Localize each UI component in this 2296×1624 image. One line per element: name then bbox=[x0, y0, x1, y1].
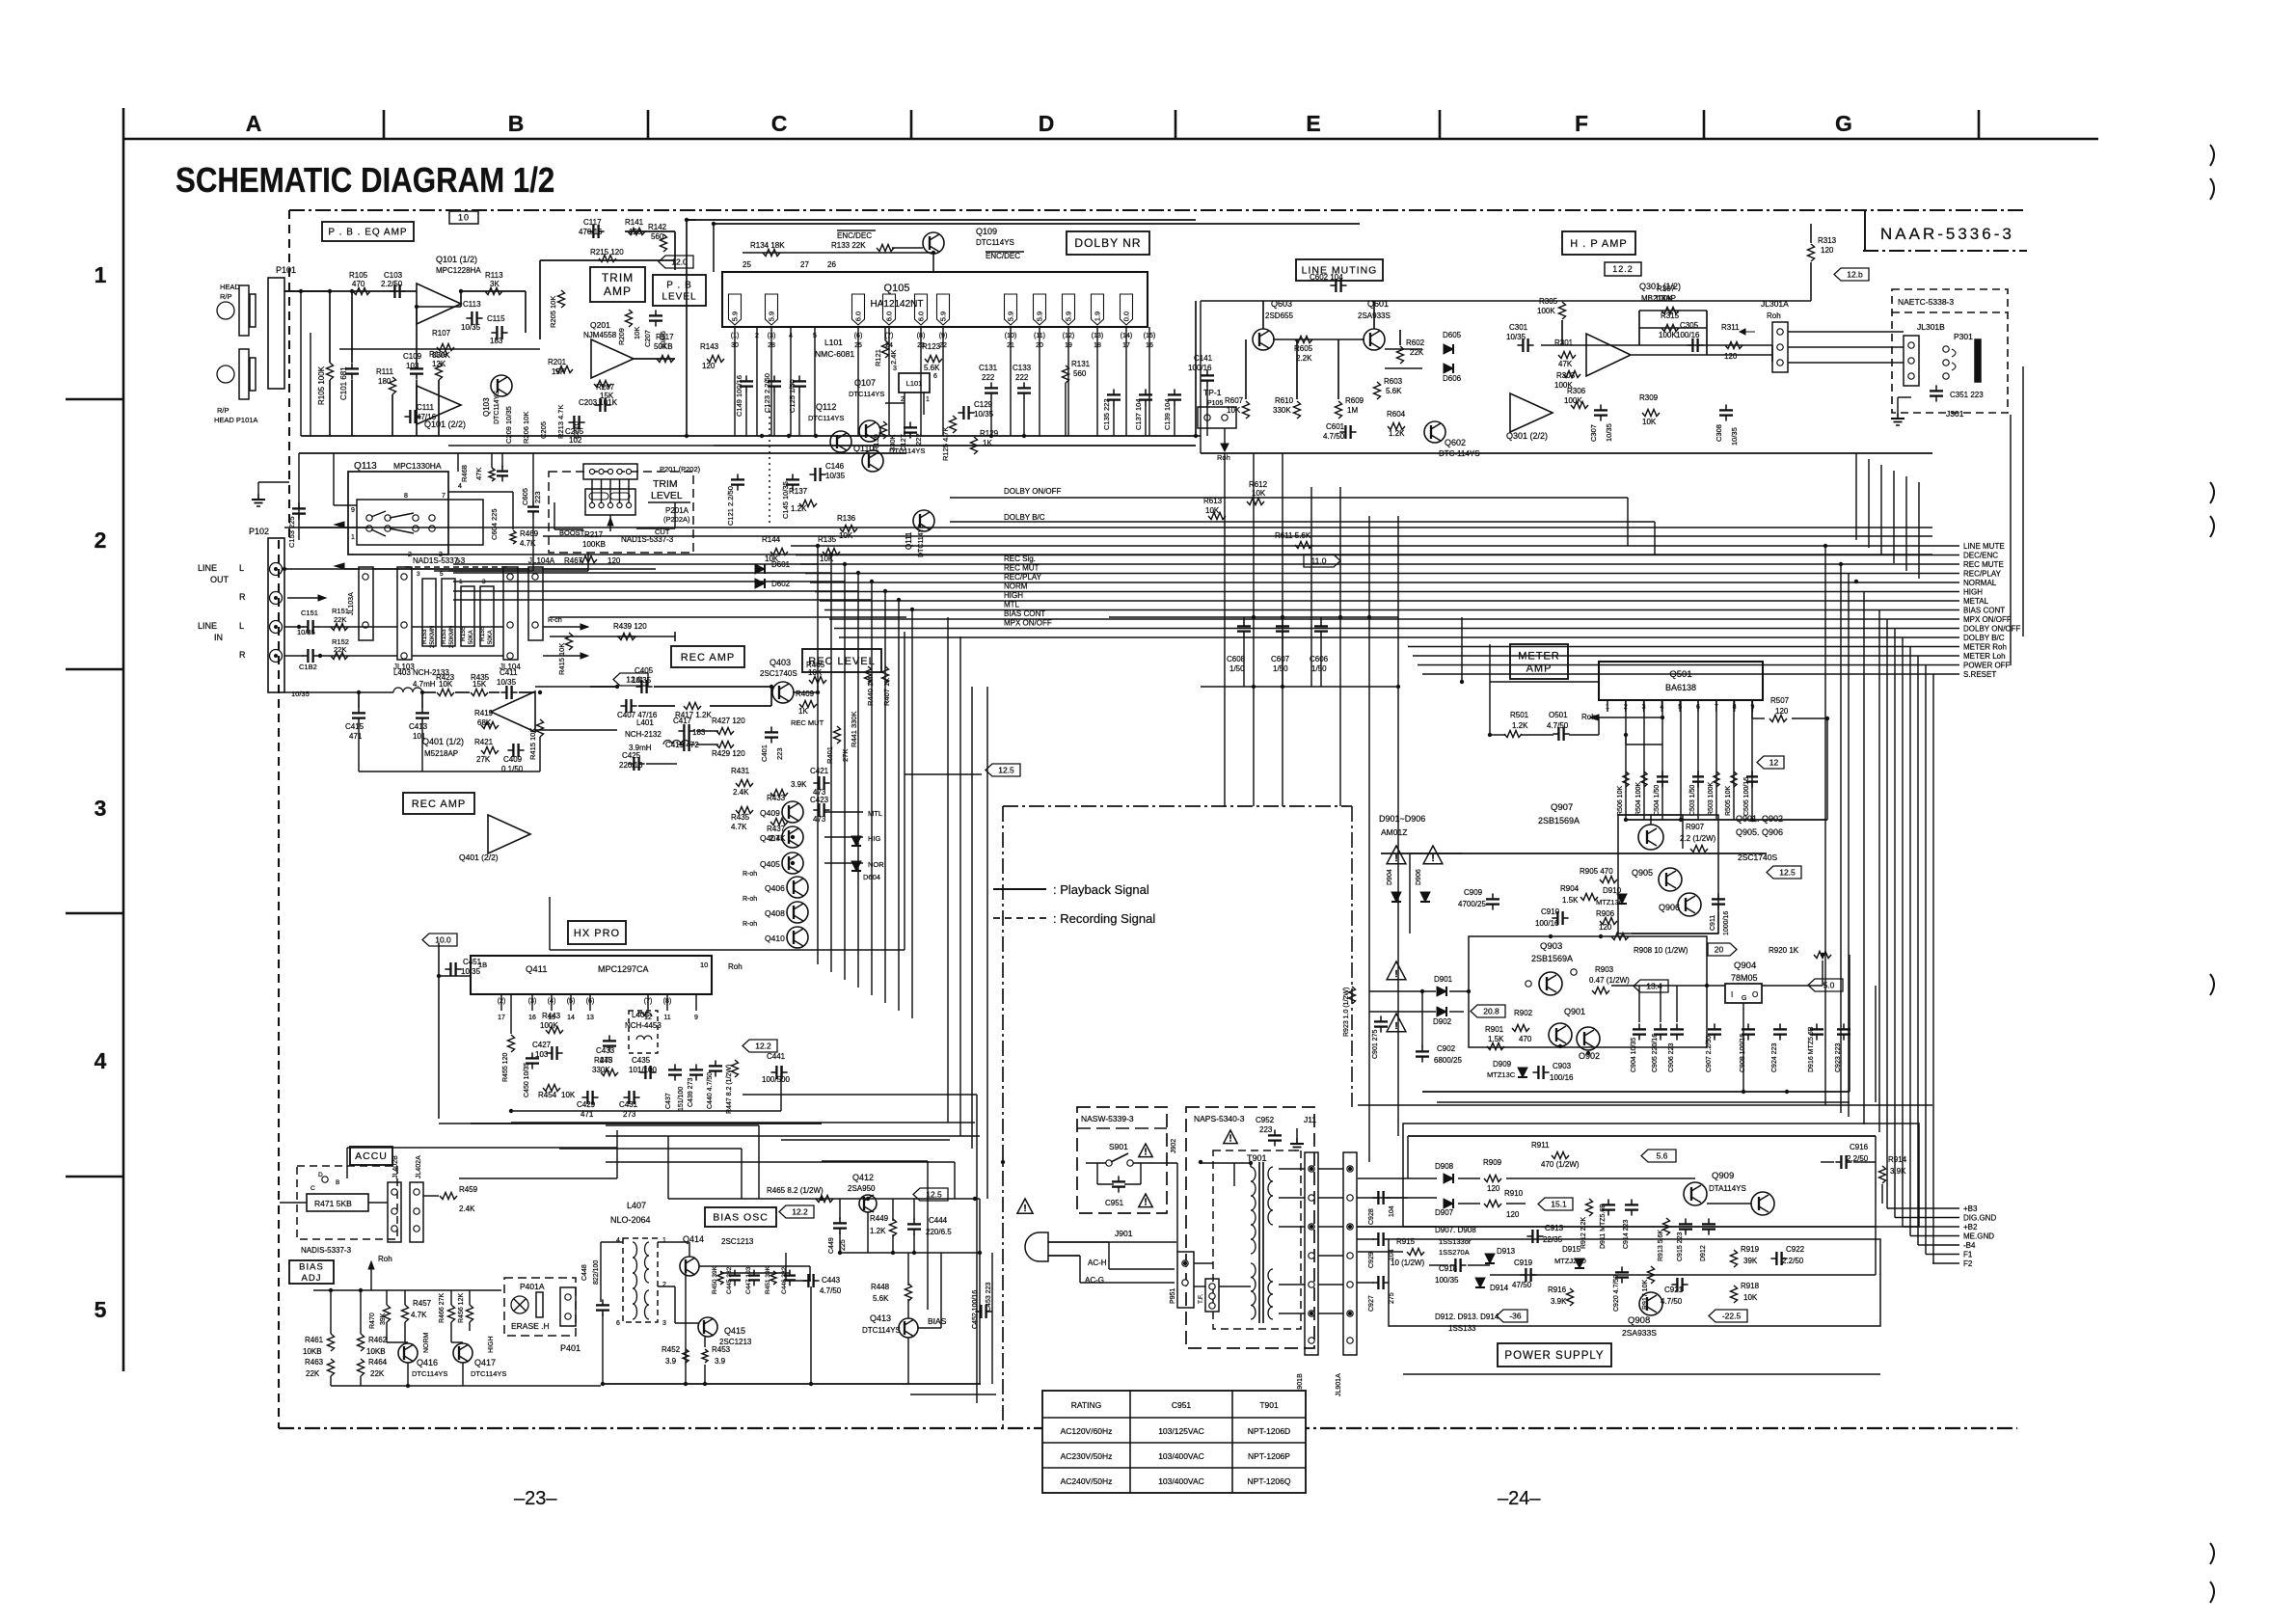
svg-text:C910: C910 bbox=[1541, 907, 1560, 916]
svg-text:5.9: 5.9 bbox=[768, 311, 776, 321]
svg-text:10K: 10K bbox=[1743, 1293, 1758, 1302]
svg-text:Q413: Q413 bbox=[870, 1313, 891, 1323]
resistor R449 bbox=[890, 1219, 897, 1236]
svg-text:4.7K: 4.7K bbox=[731, 823, 747, 831]
svg-text:20.8: 20.8 bbox=[1483, 1007, 1499, 1016]
svg-text:R612: R612 bbox=[1249, 480, 1268, 489]
resistor R909 bbox=[1484, 1176, 1501, 1182]
svg-text:C504 1/50: C504 1/50 bbox=[1654, 785, 1661, 816]
ic Q411 MPC1297CA bbox=[471, 956, 712, 994]
svg-text:1.9: 1.9 bbox=[1094, 311, 1102, 321]
resistor R151 bbox=[331, 624, 348, 631]
svg-text:39K: 39K bbox=[1743, 1257, 1758, 1265]
svg-text:D906: D906 bbox=[1416, 869, 1422, 885]
svg-text:R901: R901 bbox=[1485, 1025, 1504, 1034]
svg-text:C421: C421 bbox=[810, 767, 829, 775]
capacitor C308 vertical bbox=[1719, 409, 1733, 411]
svg-text:2SA933S: 2SA933S bbox=[1622, 1328, 1657, 1338]
svg-text:NCH-2132: NCH-2132 bbox=[625, 730, 662, 739]
svg-text:2.4K: 2.4K bbox=[459, 1204, 475, 1213]
wires line muting bbox=[1201, 300, 1504, 302]
svg-text:R131: R131 bbox=[1071, 360, 1091, 368]
svg-text:R435: R435 bbox=[731, 813, 750, 822]
svg-text:330K: 330K bbox=[592, 1066, 610, 1074]
capacitor C409 bbox=[512, 744, 514, 757]
capacitor C405 bbox=[640, 680, 642, 693]
svg-text:LEVEL: LEVEL bbox=[662, 292, 696, 303]
svg-text:R459: R459 bbox=[459, 1185, 478, 1194]
svg-text:R913 5.6K: R913 5.6K bbox=[1658, 1230, 1664, 1261]
wires jack bbox=[1788, 331, 1904, 333]
resistor R610 bbox=[1294, 401, 1301, 419]
svg-text:HIG: HIG bbox=[868, 834, 881, 843]
wire extra hp-bus verticals bbox=[1855, 453, 1857, 540]
svg-text:R311: R311 bbox=[1721, 323, 1740, 332]
resistor R311 bbox=[1725, 342, 1742, 349]
transistor Q901 bbox=[1549, 1023, 1572, 1046]
svg-text:4: 4 bbox=[458, 483, 462, 490]
svg-text:12.2: 12.2 bbox=[1612, 264, 1634, 274]
svg-text:1/50: 1/50 bbox=[1311, 664, 1327, 673]
svg-text:R452: R452 bbox=[662, 1345, 681, 1354]
svg-text:R213 4.7K: R213 4.7K bbox=[556, 405, 565, 439]
svg-text:R905 470: R905 470 bbox=[1580, 867, 1613, 876]
svg-text:D605: D605 bbox=[1443, 331, 1462, 339]
vertical ps mid parts2 bbox=[1663, 1218, 1670, 1235]
resistor R113 bbox=[485, 288, 502, 295]
pin stubs Q105 bbox=[734, 327, 736, 436]
svg-text:R910: R910 bbox=[1504, 1189, 1524, 1198]
wire ps rect low bbox=[1389, 1239, 1880, 1326]
op-amp Q201 bbox=[591, 339, 634, 378]
svg-text:REC AMP: REC AMP bbox=[681, 652, 736, 663]
svg-text:!: ! bbox=[1023, 1204, 1026, 1214]
resistor R452 bbox=[683, 1349, 689, 1363]
block label METER AMP bbox=[1510, 644, 1568, 679]
svg-text:DOLBY B/C: DOLBY B/C bbox=[1963, 634, 2005, 642]
svg-text:R427 120: R427 120 bbox=[712, 717, 745, 725]
svg-text:D: D bbox=[1039, 111, 1055, 136]
resistor R435a bbox=[471, 690, 488, 696]
svg-text:L405: L405 bbox=[632, 1011, 649, 1019]
svg-text:A: A bbox=[246, 111, 262, 136]
svg-text:C427: C427 bbox=[532, 1041, 552, 1049]
svg-text:3.9: 3.9 bbox=[665, 1357, 677, 1366]
svg-text:275: 275 bbox=[1389, 1292, 1395, 1304]
wires q113 bbox=[299, 452, 906, 454]
svg-text:1: 1 bbox=[95, 262, 107, 287]
svg-text:2SA950: 2SA950 bbox=[848, 1184, 876, 1193]
block label TRIM AMP bbox=[590, 267, 645, 302]
capacitor C146 bbox=[814, 468, 816, 481]
resistor R462 bbox=[358, 1334, 365, 1351]
svg-text:SCHEMATIC DIAGRAM 1/2: SCHEMATIC DIAGRAM 1/2 bbox=[176, 161, 554, 201]
resistor R907 bbox=[1690, 846, 1708, 853]
svg-text:DOLBY ON/OFF: DOLBY ON/OFF bbox=[1963, 625, 2021, 634]
svg-text:C129: C129 bbox=[974, 400, 993, 409]
svg-text:10KB: 10KB bbox=[303, 1347, 322, 1356]
svg-text:Q602: Q602 bbox=[1445, 438, 1466, 447]
svg-text:R506 10K: R506 10K bbox=[1617, 786, 1624, 816]
svg-text:3.9K: 3.9K bbox=[1890, 1167, 1906, 1176]
svg-text:C903: C903 bbox=[1553, 1062, 1572, 1070]
svg-text:POWER SUPPLY: POWER SUPPLY bbox=[1504, 1350, 1604, 1362]
svg-text:JL301A: JL301A bbox=[1761, 299, 1789, 309]
svg-text:1B: 1B bbox=[478, 961, 487, 969]
svg-text:180: 180 bbox=[378, 377, 392, 386]
ic Q105 HA12142NT bbox=[722, 272, 1148, 327]
svg-text:R215 120: R215 120 bbox=[590, 248, 624, 257]
svg-text:100/16: 100/16 bbox=[1550, 1073, 1574, 1082]
resistor R612 bbox=[1247, 499, 1264, 505]
svg-text:C445 332: C445 332 bbox=[726, 1266, 733, 1294]
capacitor C113 bbox=[471, 311, 473, 325]
svg-text:R443: R443 bbox=[542, 1012, 561, 1020]
capacitor C433 bbox=[603, 1040, 616, 1042]
svg-text:C133: C133 bbox=[1013, 364, 1032, 372]
resistor R313 bbox=[1808, 244, 1815, 261]
svg-text:Q301 (2/2): Q301 (2/2) bbox=[1506, 431, 1548, 441]
connector JL402A bbox=[410, 1182, 423, 1242]
svg-text:C111: C111 bbox=[417, 403, 434, 412]
resistor R468 vertical bbox=[489, 468, 495, 481]
pot block JL104 bbox=[503, 567, 518, 660]
svg-text:103: 103 bbox=[406, 362, 419, 370]
svg-text:R466 27K: R466 27K bbox=[439, 1293, 446, 1323]
rating table bbox=[1042, 1391, 1306, 1493]
resistor R466 vertical bbox=[448, 1305, 455, 1322]
wire hx to bias long bbox=[439, 1123, 822, 1124]
svg-text:10/35: 10/35 bbox=[291, 690, 310, 698]
transistor Q417 bbox=[453, 1343, 473, 1363]
capacitor C920 vertical bbox=[1615, 1271, 1629, 1273]
transformer T901 primary coil bbox=[1251, 1167, 1256, 1181]
resistor R419 bbox=[481, 722, 499, 729]
resistor R607 bbox=[1243, 401, 1250, 419]
svg-text:MPX ON/OFF: MPX ON/OFF bbox=[1963, 615, 2012, 624]
resistor R454 bbox=[543, 1085, 560, 1092]
svg-text:R-oh: R-oh bbox=[743, 896, 757, 903]
svg-text:S901: S901 bbox=[1109, 1142, 1128, 1151]
svg-text:C919: C919 bbox=[1514, 1259, 1533, 1267]
svg-text:10: 10 bbox=[458, 213, 470, 223]
svg-text:L101: L101 bbox=[824, 338, 843, 347]
transistor Q908 bbox=[1639, 1292, 1662, 1315]
svg-text:101/100: 101/100 bbox=[629, 1066, 657, 1074]
svg-text:222: 222 bbox=[1015, 373, 1029, 382]
svg-text:JL901A: JL901A bbox=[1336, 1373, 1342, 1396]
svg-text:REC/PLAY: REC/PLAY bbox=[1004, 573, 1042, 582]
svg-text:C203 101K: C203 101K bbox=[579, 398, 618, 407]
svg-text:C113: C113 bbox=[463, 300, 481, 309]
svg-text:NMC-6081: NMC-6081 bbox=[815, 349, 854, 359]
resistor R309 bbox=[1642, 410, 1660, 417]
svg-text:C146: C146 bbox=[825, 462, 845, 471]
resistor R470 vertical bbox=[384, 1305, 391, 1322]
svg-text:R-oh: R-oh bbox=[743, 871, 757, 878]
capacitor C443 bbox=[807, 1274, 809, 1287]
svg-text:R504 100K: R504 100K bbox=[1635, 782, 1642, 816]
svg-text:R465 8.2 (1/2W): R465 8.2 (1/2W) bbox=[767, 1186, 824, 1195]
capacitor C916 bbox=[1840, 1155, 1842, 1169]
svg-text:4.7/50: 4.7/50 bbox=[1661, 1297, 1683, 1306]
binder marks bbox=[2210, 145, 2214, 166]
svg-text:DTC114YS: DTC114YS bbox=[889, 447, 925, 455]
svg-text:AC-H: AC-H bbox=[1088, 1259, 1107, 1267]
svg-text:9: 9 bbox=[694, 1015, 698, 1021]
resistor R134 bbox=[763, 250, 780, 257]
diode D603 bbox=[851, 836, 861, 846]
flag -22.5 bbox=[1709, 1310, 1747, 1322]
svg-text:R920 1K: R920 1K bbox=[1769, 946, 1799, 955]
flag 10.0 bbox=[422, 934, 457, 946]
capacitor C151 bbox=[307, 620, 309, 634]
svg-text:Q906: Q906 bbox=[1659, 903, 1680, 912]
svg-text:C419 472: C419 472 bbox=[665, 741, 699, 749]
svg-text:R505 10K: R505 10K bbox=[1725, 786, 1732, 816]
svg-text:Q109: Q109 bbox=[976, 227, 997, 236]
svg-text:27K: 27K bbox=[841, 749, 850, 762]
svg-text:5.6: 5.6 bbox=[1657, 1151, 1668, 1161]
svg-text:R209: R209 bbox=[617, 328, 626, 345]
diode D914 bbox=[1475, 1278, 1485, 1287]
transistor Q103 bbox=[491, 375, 512, 396]
svg-text:2.4K: 2.4K bbox=[770, 834, 786, 843]
svg-text:C429: C429 bbox=[577, 1100, 596, 1109]
svg-text:R111: R111 bbox=[376, 367, 393, 376]
svg-text:10K: 10K bbox=[561, 1091, 576, 1099]
svg-text:R303: R303 bbox=[1556, 371, 1576, 380]
svg-text:P . B: P . B bbox=[666, 281, 692, 291]
svg-text:R153: R153 bbox=[421, 629, 428, 644]
svg-text:R450 39K: R450 39K bbox=[712, 1265, 718, 1294]
svg-text:ERASE .H: ERASE .H bbox=[511, 1321, 550, 1331]
flag 12.5 recamp bbox=[986, 764, 1020, 776]
svg-text:10/35: 10/35 bbox=[1605, 423, 1613, 442]
op-amp Q301 1/2 bbox=[1586, 334, 1631, 376]
svg-text:AC240V/50Hz: AC240V/50Hz bbox=[1061, 1476, 1113, 1486]
block label REC AMP lower bbox=[403, 793, 474, 814]
capacitor C902 bbox=[1416, 1050, 1429, 1052]
svg-text:5: 5 bbox=[440, 571, 444, 578]
svg-text:3K: 3K bbox=[490, 280, 500, 288]
svg-text:3: 3 bbox=[893, 365, 897, 372]
svg-text:R456 12K: R456 12K bbox=[458, 1293, 465, 1323]
svg-text:R137: R137 bbox=[789, 487, 808, 496]
svg-text:C901 275: C901 275 bbox=[1372, 1030, 1379, 1059]
svg-text:P401A: P401A bbox=[520, 1282, 545, 1291]
wires q412 cluster bbox=[668, 1198, 980, 1200]
transistor Q906 bbox=[1678, 893, 1701, 916]
svg-text:Q401 (2/2): Q401 (2/2) bbox=[459, 853, 499, 862]
resistor R501 bbox=[1504, 731, 1522, 738]
svg-text:G: G bbox=[1835, 111, 1852, 136]
svg-text:2.2 (1/2W): 2.2 (1/2W) bbox=[1680, 834, 1716, 843]
capacitor C918 bbox=[1454, 1259, 1456, 1272]
svg-text:C602 104: C602 104 bbox=[1310, 273, 1343, 282]
capacitor C145 vertical bbox=[786, 478, 799, 480]
block label REC LEVEL bbox=[802, 649, 881, 672]
transistor Q601 bbox=[1364, 329, 1385, 350]
svg-text:MPC1297CA: MPC1297CA bbox=[598, 964, 649, 974]
block label BIAS OSC bbox=[705, 1207, 776, 1227]
svg-text:AM01Z: AM01Z bbox=[1381, 827, 1407, 837]
capacitor C901 vertical bbox=[1374, 1020, 1388, 1022]
border frame bbox=[122, 108, 125, 1371]
svg-text:R445: R445 bbox=[594, 1056, 613, 1065]
svg-text:METER Loh: METER Loh bbox=[1963, 652, 2006, 661]
resistor R139 vertical bbox=[880, 421, 887, 439]
svg-text:39K: 39K bbox=[380, 1313, 387, 1325]
resistor R915 bbox=[1407, 1249, 1424, 1256]
svg-text:11.0: 11.0 bbox=[1311, 556, 1327, 566]
svg-text:C922: C922 bbox=[1786, 1245, 1805, 1254]
capacitor C203 bbox=[599, 398, 601, 412]
resistor R901 bbox=[1487, 1043, 1504, 1050]
resistor R469 bbox=[510, 530, 516, 544]
resistor R906 bbox=[1600, 918, 1617, 925]
capacitor C207 vertical bbox=[649, 314, 662, 316]
svg-text:BIAS: BIAS bbox=[928, 1316, 947, 1326]
wire ps q907 rect bbox=[1618, 815, 1718, 934]
svg-text:DTC114YS: DTC114YS bbox=[862, 1326, 901, 1335]
resistor R453 bbox=[702, 1349, 708, 1363]
svg-text:C209 10/35: C209 10/35 bbox=[504, 406, 513, 444]
resistor R602 bbox=[1397, 346, 1404, 364]
diode D604 bbox=[851, 861, 861, 871]
svg-text:4.7K: 4.7K bbox=[411, 1311, 427, 1319]
svg-text:10/35: 10/35 bbox=[632, 676, 652, 685]
capacitor C149 vertical bbox=[740, 380, 753, 382]
svg-text:R609: R609 bbox=[1345, 396, 1364, 405]
svg-text:C952: C952 bbox=[1256, 1116, 1275, 1124]
wires recamp1 bbox=[284, 691, 393, 693]
svg-text:HIGH: HIGH bbox=[488, 1337, 495, 1354]
flag 12.b bbox=[1834, 268, 1869, 281]
svg-text:D912: D912 bbox=[1700, 1245, 1707, 1261]
capacitor C911 vertical bbox=[1712, 898, 1725, 900]
svg-text:LINE: LINE bbox=[198, 621, 217, 631]
svg-text:HX PRO: HX PRO bbox=[574, 928, 620, 939]
svg-text:R201: R201 bbox=[548, 358, 567, 366]
svg-text:JL402B: JL402B bbox=[392, 1155, 399, 1178]
svg-text:METAL: METAL bbox=[1963, 597, 1989, 606]
svg-text:1K: 1K bbox=[798, 707, 808, 716]
flag 13.4 bbox=[1634, 980, 1668, 992]
connector P102 bbox=[268, 538, 284, 692]
flag 5.0 bbox=[1808, 979, 1843, 991]
svg-text:NOR: NOR bbox=[868, 860, 884, 869]
svg-text:8: 8 bbox=[404, 493, 408, 500]
svg-text:C131: C131 bbox=[979, 364, 998, 372]
ic Q501 BA6138 bbox=[1599, 662, 1763, 700]
svg-text:225: 225 bbox=[840, 1239, 847, 1251]
svg-text:+B2: +B2 bbox=[1963, 1223, 1978, 1232]
svg-text:10.0: 10.0 bbox=[435, 935, 451, 945]
resistor R133 bbox=[877, 245, 894, 252]
svg-text:(3): (3) bbox=[528, 998, 537, 1005]
svg-text:C415: C415 bbox=[345, 722, 365, 731]
svg-text:R136: R136 bbox=[837, 514, 856, 523]
svg-text:O501: O501 bbox=[1549, 711, 1568, 719]
resistor R405 bbox=[809, 677, 826, 684]
capacitor C439 vertical bbox=[689, 1069, 703, 1070]
svg-text:C308: C308 bbox=[1715, 424, 1723, 442]
capacitor C351 bbox=[1930, 390, 1943, 392]
svg-text:HIGH: HIGH bbox=[1004, 591, 1023, 600]
resistor R464 bbox=[358, 1359, 365, 1376]
svg-text:Q103: Q103 bbox=[482, 397, 491, 417]
svg-text:4.7/50: 4.7/50 bbox=[820, 1286, 842, 1295]
svg-text:3.9K: 3.9K bbox=[791, 780, 807, 789]
svg-text:ME.GND: ME.GND bbox=[1963, 1232, 1994, 1241]
svg-text:DTC114YS: DTC114YS bbox=[976, 238, 1014, 247]
svg-text:9: 9 bbox=[351, 507, 355, 514]
svg-text:10/35: 10/35 bbox=[1730, 427, 1739, 446]
svg-text:D901~D906: D901~D906 bbox=[1379, 814, 1425, 824]
svg-text:R613: R613 bbox=[1203, 497, 1223, 505]
svg-text:26: 26 bbox=[827, 260, 836, 269]
resistor R215 bbox=[599, 256, 616, 262]
svg-text:100/16: 100/16 bbox=[1535, 919, 1559, 928]
svg-text:3.9: 3.9 bbox=[715, 1357, 726, 1366]
resistor R919 bbox=[1731, 1250, 1738, 1267]
svg-text:R107: R107 bbox=[432, 329, 451, 338]
resistor R105b vertical bbox=[327, 363, 334, 380]
capacitor C121 vertical bbox=[731, 478, 744, 480]
svg-text:5: 5 bbox=[95, 1297, 107, 1322]
svg-text:R421: R421 bbox=[474, 738, 494, 746]
transistor Q415 bbox=[698, 1317, 717, 1337]
transformer T901 core bbox=[1258, 1162, 1260, 1323]
flag 12.2 hx bbox=[743, 1040, 777, 1052]
svg-text:R919: R919 bbox=[1741, 1245, 1760, 1254]
diode D915 bbox=[1575, 1259, 1584, 1268]
svg-text:C449: C449 bbox=[828, 1237, 835, 1254]
svg-text:C207: C207 bbox=[643, 330, 652, 347]
svg-text:C607: C607 bbox=[1271, 655, 1290, 663]
svg-text:D606: D606 bbox=[1443, 374, 1462, 383]
svg-text:Q201: Q201 bbox=[590, 320, 610, 330]
transistor Q408 bbox=[787, 902, 808, 923]
svg-text:DOLBY ON/OFF: DOLBY ON/OFF bbox=[1004, 487, 1062, 496]
op-amp Q401 1/2 bbox=[491, 691, 535, 732]
svg-text:L407: L407 bbox=[627, 1201, 646, 1210]
capacitor C910 bbox=[1556, 911, 1558, 925]
wires ac bbox=[1109, 1241, 1176, 1243]
svg-text:C115: C115 bbox=[487, 314, 505, 323]
svg-text:Roh: Roh bbox=[1217, 453, 1230, 462]
svg-text:R447 8.2 (1/2W): R447 8.2 (1/2W) bbox=[726, 1065, 733, 1114]
head R/P bottom bbox=[239, 349, 249, 399]
svg-text:-22.5: -22.5 bbox=[1722, 1312, 1742, 1321]
svg-text:AMP: AMP bbox=[604, 284, 632, 298]
resistor R105 bbox=[353, 288, 370, 295]
svg-text:MPC1330HA: MPC1330HA bbox=[393, 461, 442, 471]
resistor R445 bbox=[601, 1069, 618, 1076]
svg-text:HIGH: HIGH bbox=[1963, 588, 1983, 597]
svg-text:2SD655: 2SD655 bbox=[1265, 311, 1293, 320]
svg-text:Q110: Q110 bbox=[853, 444, 874, 453]
svg-text:Q412: Q412 bbox=[852, 1173, 874, 1182]
svg-text:Q901. Q902: Q901. Q902 bbox=[1736, 814, 1783, 824]
svg-text:D909: D909 bbox=[1493, 1060, 1512, 1069]
svg-text:2.4K: 2.4K bbox=[733, 788, 749, 797]
svg-text:ACCU: ACCU bbox=[355, 1150, 388, 1162]
warning naps bbox=[1224, 1130, 1237, 1144]
svg-text:R125 4.7K: R125 4.7K bbox=[941, 427, 950, 461]
svg-text:C351 223: C351 223 bbox=[1950, 391, 1984, 399]
